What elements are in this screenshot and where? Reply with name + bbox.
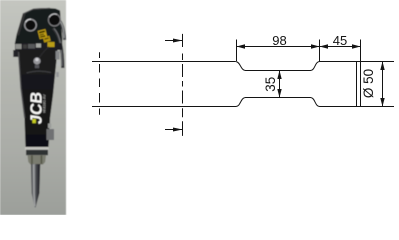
svg-text:Ø 50: Ø 50 <box>361 69 376 98</box>
svg-text:98: 98 <box>272 33 286 48</box>
svg-text:45: 45 <box>333 33 347 48</box>
svg-text:35: 35 <box>263 77 278 92</box>
svg-text:HM380 AV: HM380 AV <box>42 94 47 113</box>
